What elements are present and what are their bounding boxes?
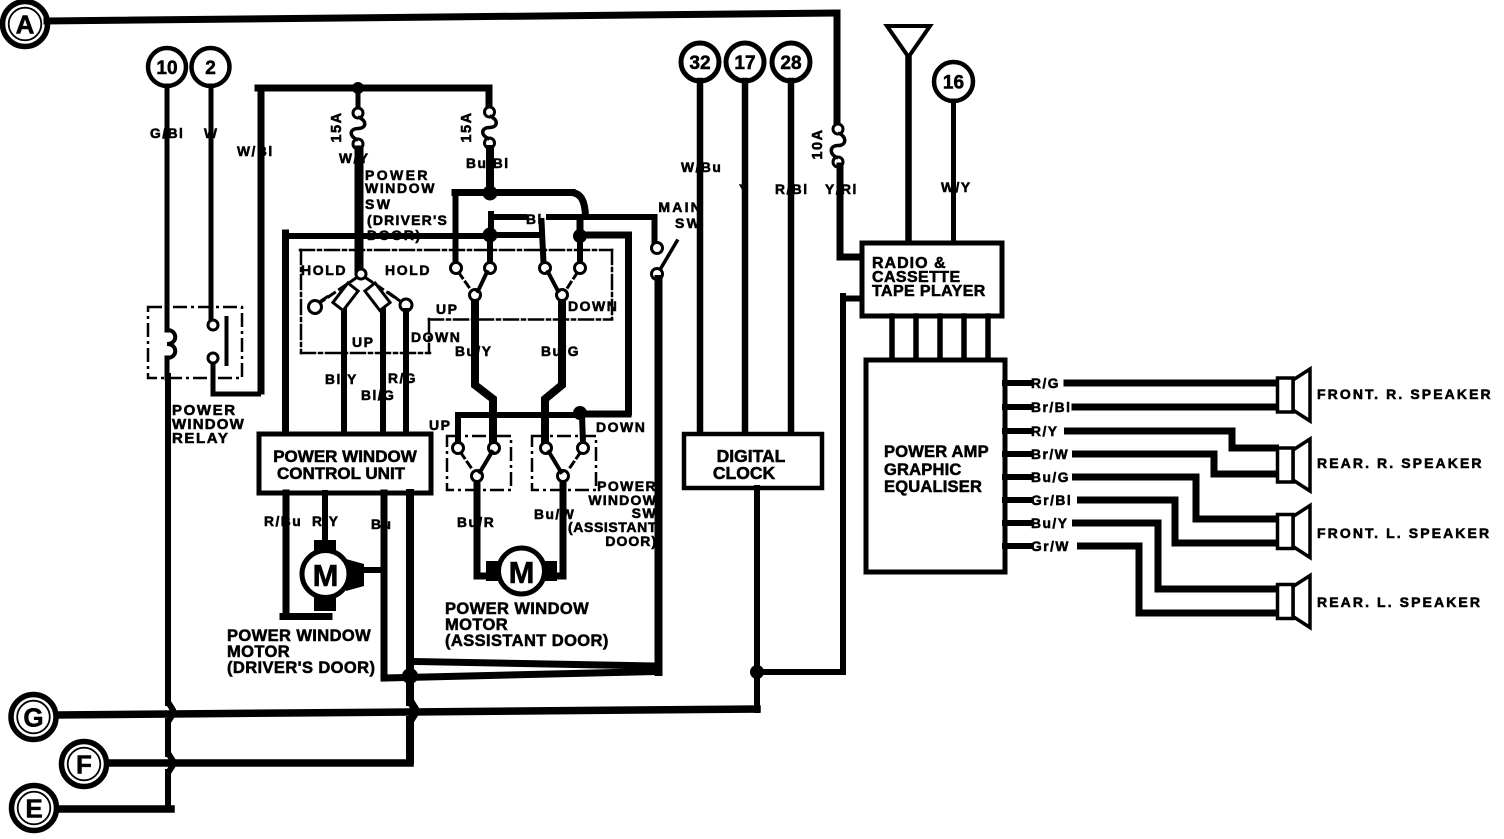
wire Bl corner down — [488, 214, 494, 229]
driver window switch pivot — [356, 269, 366, 279]
svg-text:Gr/Bl: Gr/Bl — [1031, 493, 1072, 508]
wire G/Bl — [165, 86, 170, 308]
wire bus to fuse2 — [486, 88, 493, 107]
contact a1 — [451, 263, 462, 274]
svg-text:UP: UP — [436, 301, 458, 317]
svg-text:10: 10 — [156, 58, 177, 79]
wire Bu/Y — [475, 300, 493, 443]
dashed q2 — [569, 453, 580, 469]
radio box — [862, 243, 1002, 316]
power window control unit box — [259, 434, 431, 493]
svg-text:HOLD: HOLD — [301, 262, 347, 278]
relay switch contacts — [208, 320, 218, 330]
wire Br/Bl — [1005, 404, 1030, 410]
svg-text:(DRIVER'S DOOR): (DRIVER'S DOOR) — [227, 659, 375, 677]
svg-text:32: 32 — [689, 53, 710, 74]
relay armature — [225, 318, 229, 364]
svg-text:Bu: Bu — [371, 517, 392, 532]
contact driver UP — [309, 301, 322, 314]
wire Y — [742, 81, 749, 436]
wire Bl line — [491, 214, 524, 220]
svg-text:W/Bl: W/Bl — [237, 144, 274, 159]
wire relay to E riser — [165, 376, 171, 703]
wire bottom L1 — [384, 672, 658, 679]
contact b3 — [541, 443, 552, 454]
wire Bu/Bl — [486, 149, 494, 188]
wire Bu — [381, 493, 388, 674]
wire A to 10A fuse — [47, 13, 834, 21]
svg-text:16: 16 — [943, 72, 964, 93]
svg-text:W/Y: W/Y — [941, 180, 972, 195]
equaliser box — [866, 360, 1005, 572]
svg-text:GRAPHIC: GRAPHIC — [884, 461, 962, 479]
digital clock box — [684, 434, 822, 488]
contact a3 — [540, 263, 551, 274]
connector 28 — [772, 43, 810, 81]
svg-text:W/Bu: W/Bu — [681, 160, 722, 175]
wire R/Bl — [788, 81, 795, 436]
svg-text:HOLD: HOLD — [385, 262, 431, 278]
contact b4 — [578, 443, 589, 454]
wire R/Bu — [283, 493, 290, 613]
svg-text:R/G: R/G — [388, 371, 417, 386]
lever left — [333, 283, 358, 311]
driver door switch box — [300, 249, 612, 252]
wire node to G — [754, 672, 760, 710]
svg-text:A: A — [16, 9, 35, 39]
wire Gr/W — [1005, 543, 1030, 549]
svg-text:DOOR): DOOR) — [605, 533, 657, 549]
svg-text:Bl/Y: Bl/Y — [325, 372, 358, 387]
wire Bl/Y — [341, 307, 347, 435]
svg-text:REAR. R. SPEAKER: REAR. R. SPEAKER — [1317, 455, 1484, 471]
wire Bu/Y — [1005, 520, 1030, 526]
wire bus y192 left — [455, 189, 490, 196]
fuse 15A no2 — [485, 107, 495, 117]
connector 10 — [148, 48, 186, 86]
svg-text:R/Y: R/Y — [1031, 424, 1059, 439]
wire bottom L2 — [413, 662, 658, 667]
main sw contact top — [652, 243, 663, 254]
wire F — [107, 759, 410, 767]
connector F — [62, 742, 107, 787]
lever q1 — [480, 452, 492, 472]
wire R/Y — [322, 493, 328, 541]
pivot p2 — [557, 290, 568, 301]
svg-text:R/G: R/G — [1031, 376, 1060, 391]
svg-text:10A: 10A — [810, 128, 826, 159]
contact driver DOWN — [400, 299, 412, 311]
contact DOWN stub — [389, 293, 396, 298]
svg-text:E: E — [25, 793, 42, 823]
speaker front R — [1293, 369, 1310, 421]
svg-text:15A: 15A — [459, 111, 475, 142]
power window relay box — [148, 307, 242, 378]
motor driver terminal right — [346, 559, 364, 591]
svg-text:17: 17 — [734, 53, 755, 74]
wire cu4 lower — [410, 701, 415, 721]
speaker rear R — [1293, 439, 1310, 491]
wire Bl to main sw — [652, 217, 658, 242]
svg-text:(DRIVER'S: (DRIVER'S — [367, 212, 448, 228]
contact b2 — [489, 443, 500, 454]
wire Bu/W — [555, 481, 563, 576]
node bottom junction — [402, 668, 418, 684]
dashed q1 — [461, 453, 472, 469]
motor asst terminal right — [540, 561, 557, 581]
svg-text:R/Bu: R/Bu — [264, 514, 302, 529]
wire y235 link — [490, 232, 541, 238]
wire W/Bl — [258, 88, 265, 391]
lever p2 — [548, 272, 558, 291]
svg-text:MAIN: MAIN — [658, 199, 703, 215]
bus wire y88 — [258, 85, 489, 92]
svg-text:DOWN: DOWN — [568, 298, 618, 314]
node bus dot — [573, 406, 587, 420]
speaker rear L — [1293, 576, 1310, 628]
motor asst terminal left — [486, 561, 503, 581]
svg-text:REAR. L. SPEAKER: REAR. L. SPEAKER — [1317, 594, 1482, 610]
assistant switch box 1 — [447, 436, 511, 490]
svg-text:FRONT. L. SPEAKER: FRONT. L. SPEAKER — [1317, 525, 1491, 541]
motor driver terminal bottom — [314, 595, 336, 611]
wire R/G — [1005, 380, 1030, 386]
dashed p1 — [459, 273, 471, 290]
wires radio eq — [889, 316, 895, 360]
lever right — [365, 283, 390, 311]
svg-text:DOOR): DOOR) — [367, 227, 422, 243]
contact b1 — [453, 443, 464, 454]
svg-text:Bu/R: Bu/R — [457, 515, 495, 530]
dashed throw left — [318, 278, 356, 304]
main sw contact bottom — [652, 269, 663, 280]
svg-text:G: G — [23, 702, 43, 732]
wire clock down — [754, 488, 760, 670]
dashed throw right — [366, 278, 403, 303]
connector 17 — [726, 43, 764, 81]
svg-text:Bu/G: Bu/G — [1031, 470, 1070, 485]
wire W/Y — [355, 150, 364, 269]
wire cu4 — [406, 493, 414, 702]
fuse 10A — [833, 124, 843, 134]
svg-text:DOWN: DOWN — [411, 329, 461, 345]
wire G — [57, 709, 757, 715]
relay coil — [165, 307, 170, 330]
wire R/G — [403, 311, 409, 435]
wire Gr/Bl — [1005, 497, 1030, 503]
node Bu/Bl junction — [483, 186, 498, 201]
node fuse1 tap — [352, 82, 364, 94]
svg-text:TAPE PLAYER: TAPE PLAYER — [872, 283, 986, 300]
svg-text:F: F — [76, 749, 92, 779]
svg-text:SW: SW — [365, 196, 392, 212]
contact a2 — [485, 263, 496, 274]
connector 32 — [681, 43, 719, 81]
svg-text:W/Y: W/Y — [339, 151, 370, 166]
svg-text:28: 28 — [780, 53, 801, 74]
wire Bu/G — [1005, 474, 1030, 480]
main sw lever — [661, 241, 677, 268]
connector E — [12, 786, 57, 831]
wire main sw down — [655, 279, 663, 672]
wire bus y192 right + curve — [490, 189, 572, 196]
svg-text:M: M — [509, 555, 535, 590]
svg-text:WINDOW: WINDOW — [365, 180, 436, 196]
node Bl tap A — [483, 228, 498, 243]
pivot q2 — [558, 471, 569, 482]
motor M2 — [499, 548, 545, 594]
connector 2 — [192, 48, 230, 86]
antenna — [887, 26, 930, 57]
svg-text:Bu/G: Bu/G — [541, 344, 580, 359]
connector G — [11, 695, 56, 740]
assistant switch box 2 — [532, 436, 596, 490]
motor M1 — [302, 551, 349, 598]
svg-text:(ASSISTANT DOOR): (ASSISTANT DOOR) — [445, 632, 609, 650]
lever p1 — [478, 272, 487, 291]
wire W/Y radio — [951, 101, 956, 244]
svg-text:15A: 15A — [329, 111, 345, 142]
svg-text:FRONT. R. SPEAKER: FRONT. R. SPEAKER — [1317, 386, 1493, 402]
wire R/Y — [1005, 428, 1030, 434]
svg-text:EQUALISER: EQUALISER — [884, 478, 982, 496]
connector A — [3, 2, 48, 47]
svg-text:Y: Y — [739, 182, 750, 197]
wire Bu/G — [545, 300, 562, 443]
wire W/Bu — [697, 81, 704, 436]
svg-text:R/Bl: R/Bl — [775, 182, 809, 197]
svg-text:RELAY: RELAY — [172, 430, 229, 447]
svg-text:Bl/G: Bl/G — [361, 388, 395, 403]
wire W — [209, 86, 214, 320]
lever q2 — [549, 452, 561, 472]
svg-text:Bu/Y: Bu/Y — [455, 344, 492, 359]
svg-text:Bu/Y: Bu/Y — [1031, 516, 1068, 531]
pivot q1 — [472, 471, 483, 482]
wire y236 feed — [288, 233, 488, 239]
wire relay out to W/Bl — [213, 363, 261, 394]
svg-text:2: 2 — [205, 58, 216, 79]
svg-text:R/Y: R/Y — [312, 514, 340, 529]
svg-text:CLOCK: CLOCK — [713, 463, 776, 483]
svg-text:CONTROL UNIT: CONTROL UNIT — [277, 464, 406, 483]
connector 16 — [934, 62, 973, 101]
svg-text:UP: UP — [352, 334, 374, 350]
svg-text:Gr/W: Gr/W — [1031, 539, 1070, 554]
wire Bl/G — [380, 307, 386, 435]
node clock junction — [750, 665, 764, 679]
motor driver terminal top — [314, 540, 336, 554]
node Bl tap B — [573, 229, 587, 243]
contact a4 — [575, 263, 586, 274]
svg-text:DOWN: DOWN — [596, 419, 646, 435]
svg-text:M: M — [313, 558, 339, 593]
bus UP y415 — [458, 412, 580, 418]
fuse 15A no1 — [353, 108, 363, 118]
svg-text:Br/W: Br/W — [1031, 447, 1069, 462]
wire dot to contact — [582, 415, 583, 443]
speaker front L — [1293, 506, 1310, 558]
contact UP stub — [318, 297, 327, 303]
wire Br/W — [1005, 451, 1030, 457]
wire E — [57, 805, 171, 813]
wire y235 to assistant — [586, 232, 628, 239]
wire node to radio — [757, 669, 843, 675]
svg-text:Br/Bl: Br/Bl — [1031, 400, 1071, 415]
svg-text:UP: UP — [429, 417, 451, 433]
wire Bu/R — [477, 481, 488, 576]
dashed p2 — [566, 273, 577, 290]
wire Y/Rl fuse to radio — [837, 166, 844, 255]
pivot p1 — [470, 290, 481, 301]
svg-text:POWER AMP: POWER AMP — [884, 443, 989, 461]
